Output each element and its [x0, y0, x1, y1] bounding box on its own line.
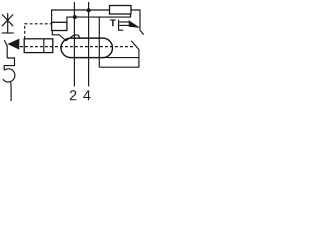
trip actuation arrow from relay — [7, 39, 19, 50]
latch step wire — [4, 58, 14, 70]
wire: module supply bus to resistor R — [67, 14, 131, 22]
wire threading toroid core — [98, 17, 100, 67]
mechanical linkage (dashed) from lever to test contact — [20, 46, 133, 48]
trip relay / release coil — [24, 39, 53, 53]
test contact blade and wire down — [131, 41, 139, 67]
junction on conductor 2 — [73, 15, 77, 19]
junction on conductor 4 — [87, 8, 91, 12]
secondary winding wire on core — [52, 31, 80, 41]
operating handle / free-trip mechanism symbol — [2, 13, 14, 33]
wire: module to resistor R — [52, 10, 110, 22]
wire: resistor to test contact fixed end — [131, 10, 144, 35]
current transformer toroid core W1 — [61, 38, 113, 58]
mechanical linkage (dashed) relay to electronics module — [25, 23, 52, 39]
mechanism link wire down — [10, 82, 13, 101]
test button T plunger — [119, 20, 131, 31]
terminal number 4 — [83, 90, 90, 100]
terminal number 2 — [70, 90, 77, 100]
test resistor R — [110, 6, 132, 15]
test button label T — [110, 20, 116, 27]
wire: test loop bottom — [99, 66, 139, 68]
trip lever wire — [4, 40, 7, 58]
latch hook (5-shaped catch) — [3, 69, 15, 82]
electronics module U1 — [52, 22, 67, 30]
conductor pole, terminal 4 — [88, 2, 90, 86]
conductor pole, terminal 2 — [73, 2, 75, 86]
plunger actuation arrowhead — [129, 20, 141, 28]
wire: toroid to test contact (loop top) — [103, 57, 139, 59]
